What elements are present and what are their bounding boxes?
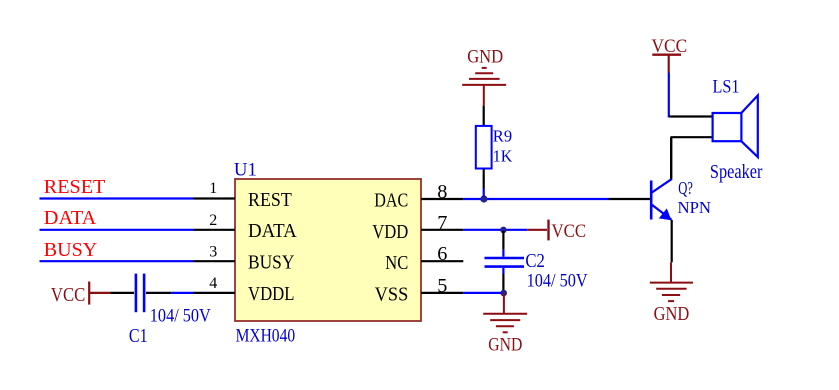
svg-text:GND: GND <box>488 334 522 355</box>
svg-text:R9: R9 <box>493 127 512 146</box>
svg-text:VDDL: VDDL <box>248 284 294 305</box>
svg-text:GND: GND <box>654 304 690 325</box>
svg-text:RESET: RESET <box>44 177 106 198</box>
svg-text:DAC: DAC <box>374 191 408 212</box>
svg-text:C2: C2 <box>525 250 545 272</box>
svg-text:104/ 50V: 104/ 50V <box>150 306 211 327</box>
svg-text:5: 5 <box>437 275 447 297</box>
svg-text:LS1: LS1 <box>713 77 740 98</box>
svg-text:VSS: VSS <box>375 284 409 305</box>
svg-text:REST: REST <box>248 190 292 211</box>
svg-text:Q?: Q? <box>678 178 693 198</box>
svg-text:6: 6 <box>437 243 447 265</box>
svg-text:7: 7 <box>437 212 447 234</box>
svg-text:3: 3 <box>209 243 217 260</box>
svg-text:DATA: DATA <box>44 208 97 229</box>
svg-text:BUSY: BUSY <box>248 253 294 274</box>
svg-text:VCC: VCC <box>51 285 85 306</box>
svg-text:VDD: VDD <box>372 222 408 243</box>
svg-text:BUSY: BUSY <box>44 240 97 261</box>
svg-text:U1: U1 <box>234 160 257 181</box>
svg-text:1: 1 <box>209 180 217 197</box>
svg-text:Speaker: Speaker <box>710 162 763 183</box>
svg-text:4: 4 <box>209 275 217 292</box>
svg-text:NPN: NPN <box>678 198 712 217</box>
svg-text:8: 8 <box>437 181 447 203</box>
svg-text:DATA: DATA <box>248 221 297 242</box>
svg-text:NC: NC <box>385 253 408 274</box>
svg-text:GND: GND <box>467 47 503 68</box>
svg-text:1K: 1K <box>493 147 513 166</box>
svg-text:104/ 50V: 104/ 50V <box>527 271 588 292</box>
svg-text:2: 2 <box>209 212 217 229</box>
svg-text:C1: C1 <box>129 326 148 347</box>
svg-text:VCC: VCC <box>552 221 587 242</box>
svg-text:MXH040: MXH040 <box>236 326 296 347</box>
